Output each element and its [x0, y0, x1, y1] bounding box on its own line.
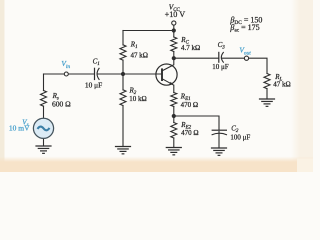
junction base node: [121, 72, 125, 76]
junction emitter node: [172, 114, 176, 118]
left page strip: [0, 0, 5, 172]
wire RL ground lead: [266, 89, 268, 99]
wire R2 ground lead: [122, 106, 124, 147]
svg-text:10 μF: 10 μF: [212, 63, 229, 71]
capacitor C1: [95, 68, 100, 80]
svg-text:100 μF: 100 μF: [230, 134, 250, 142]
wire emitter lead: [173, 85, 175, 92]
wire input rail: [44, 73, 65, 75]
wire Vin to C1: [68, 73, 94, 75]
resistor RL: [264, 74, 270, 89]
capacitor C2: [212, 130, 227, 135]
source Vs: [33, 118, 53, 138]
capacitor C3: [219, 52, 224, 63]
resistor R2: [120, 90, 126, 106]
svg-text:10 μF: 10 μF: [85, 81, 102, 90]
resistor RE2: [171, 123, 177, 138]
wire RE2 ground lead: [173, 138, 175, 148]
wire VCC stub: [173, 25, 175, 30]
svg-text:10 mV: 10 mV: [9, 124, 30, 133]
svg-text:47 kΩ: 47 kΩ: [273, 80, 290, 88]
wire output rail mid: [221, 57, 244, 59]
svg-text:470 Ω: 470 Ω: [181, 101, 198, 109]
resistor Rs: [41, 91, 47, 107]
wire C2 ground lead: [218, 131, 220, 148]
resistor RC: [171, 37, 177, 52]
wire R1 top lead: [122, 31, 124, 45]
wire Vs branch top: [43, 74, 45, 91]
svg-text:470 Ω: 470 Ω: [181, 129, 198, 137]
svg-text:10 kΩ: 10 kΩ: [129, 95, 146, 103]
wire RC top lead: [173, 31, 175, 38]
ground (R2): [115, 147, 131, 154]
resistor R1: [120, 45, 126, 60]
ground (C2): [211, 148, 227, 155]
junction top rail: [172, 28, 176, 32]
wire output rail right: [249, 58, 267, 73]
svg-text:4.7 kΩ: 4.7 kΩ: [181, 44, 200, 52]
wire C1 to base: [97, 73, 162, 75]
node Vout terminal: [244, 56, 248, 60]
ground (source): [35, 146, 51, 153]
svg-text:βac = 175: βac = 175: [229, 23, 259, 34]
wire source to ground: [43, 138, 45, 146]
node Vin terminal: [64, 72, 68, 76]
node VCC terminal: [172, 21, 176, 25]
page background: [0, 0, 313, 172]
transistor Q1: [156, 58, 177, 85]
wire top rail: [123, 30, 174, 32]
wire emitter node to C2: [174, 116, 219, 130]
svg-text:600 Ω: 600 Ω: [52, 99, 71, 108]
svg-text:47 kΩ: 47 kΩ: [131, 51, 148, 59]
wire node to RE2: [173, 116, 175, 123]
junction collector node: [172, 56, 176, 60]
svg-text:+10 V: +10 V: [165, 10, 186, 19]
ground (RE2): [166, 148, 182, 155]
wire RE1 to node: [173, 107, 175, 117]
bottom page strip: [0, 157, 313, 173]
wire RC bottom lead: [173, 52, 175, 59]
wire Rs to source: [43, 106, 45, 119]
wire R1 bottom lead: [122, 60, 124, 74]
ground (RL): [259, 99, 275, 106]
resistor RE1: [171, 93, 177, 107]
wire R2 top lead: [122, 74, 124, 90]
wire output rail left: [174, 57, 219, 59]
